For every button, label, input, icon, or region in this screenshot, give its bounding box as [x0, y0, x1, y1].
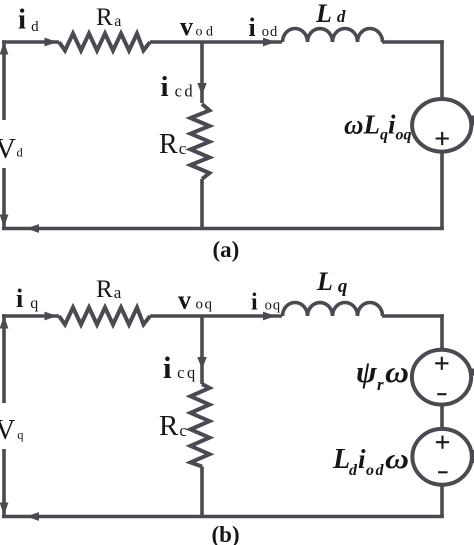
wire right vertical lower (a) — [440, 151, 444, 231]
inductor Ld — [283, 29, 383, 43]
svg-text:Ld: Ld — [315, 0, 346, 28]
svg-text:icd: icd — [161, 71, 196, 103]
svg-text:ω: ω — [385, 444, 409, 475]
wire Rc to bottom (a) — [200, 179, 204, 229]
voltage arrow V_d bottom (down) — [0, 215, 8, 228]
current arrow bottom return (a) — [26, 224, 39, 233]
svg-text:L: L — [332, 444, 350, 475]
wire top-left horizontal (b) — [2, 314, 59, 318]
polarity + of source ωLq·ioq (a) — [436, 132, 449, 145]
wire left vertical upper (b) — [2, 314, 6, 403]
wire right vertical lower (b) — [440, 484, 444, 519]
current arrow i_oq — [263, 312, 276, 321]
svg-text:Vd: Vd — [0, 133, 23, 165]
voltage source ψr·ω circle (b) — [412, 350, 471, 405]
wire resistor Ra to node v_od (a) — [150, 40, 282, 44]
current arrow i_cd — [197, 83, 207, 95]
current arrow i_od — [263, 38, 276, 47]
svg-text:Lq: Lq — [316, 267, 348, 297]
polarity − of source Ld·iod·ω (b) — [438, 471, 448, 473]
svg-text:id: id — [18, 4, 39, 36]
resistor Rc (b) — [191, 384, 210, 467]
stray mark at right edge near source ωLq·ioq — [471, 116, 474, 126]
svg-text:(b): (b) — [212, 522, 240, 545]
svg-text:Rc: Rc — [159, 129, 187, 160]
svg-text:Rc: Rc — [159, 410, 187, 442]
resistor Ra (b) — [59, 308, 150, 325]
svg-text:(a): (a) — [213, 237, 240, 262]
current arrow i_q — [45, 312, 58, 321]
svg-text:iod: iod — [249, 13, 279, 42]
wire left vertical lower (a) — [2, 168, 6, 230]
svg-text:ωLqioq: ωLqioq — [344, 110, 412, 144]
svg-text:i: i — [358, 444, 366, 474]
wire bottom return (b) — [2, 515, 444, 519]
stray mark at right edge near source Ld·iod·ω — [471, 450, 474, 463]
svg-text:icq: icq — [163, 350, 198, 385]
wire between source ψrω and source Ld·iod·ω (b) — [440, 404, 444, 431]
wire top-left horizontal (a) — [2, 40, 59, 44]
wire resistor Ra to node v_oq (b) — [150, 314, 282, 318]
wire left vertical upper (a) — [2, 40, 6, 120]
svg-text:d: d — [349, 462, 358, 479]
voltage arrow V_q top (up) — [0, 316, 8, 329]
wire right vertical upper (b) — [440, 314, 444, 351]
voltage arrow V_q bottom (down) — [0, 503, 8, 516]
polarity − of source ψrω (b) — [437, 393, 446, 395]
wire inductor Lq to right corner (b) — [382, 314, 444, 318]
current arrow bottom return (b) — [26, 512, 39, 521]
current arrow i_cq — [197, 357, 207, 369]
voltage arrow V_d top (up) — [0, 42, 8, 55]
svg-text:Vq: Vq — [0, 415, 24, 446]
svg-text:ψ: ψ — [356, 354, 377, 389]
wire right vertical upper (a) — [440, 40, 444, 100]
voltage source ωLq·ioq circle (a) — [412, 99, 471, 152]
wire Rc to bottom (b) — [200, 467, 204, 517]
svg-text:ω: ω — [385, 354, 409, 389]
polarity + of source Ld·iod·ω (b) — [436, 436, 449, 449]
stray mark at right edge near source ψrω — [471, 369, 474, 376]
wire bottom return (a) — [2, 227, 444, 231]
svg-text:Ra: Ra — [96, 276, 122, 303]
svg-text:r: r — [377, 375, 384, 394]
resistor Rc (a) — [191, 104, 210, 179]
svg-text:voq: voq — [178, 286, 214, 315]
svg-text:vod: vod — [180, 12, 217, 41]
resistor Ra (a) — [59, 34, 150, 51]
svg-text:ioq: ioq — [251, 290, 281, 316]
wire node v_od drop (a) — [200, 42, 204, 103]
voltage source Ld·iod·ω circle (b) — [412, 429, 471, 485]
wire left vertical lower (b) — [2, 449, 6, 518]
svg-text:od: od — [366, 462, 385, 479]
current arrow i_d — [45, 38, 58, 47]
inductor Lq — [283, 303, 383, 317]
polarity + of source ψrω (b) — [435, 357, 448, 370]
wire inductor Ld to right corner (a) — [382, 40, 444, 44]
svg-text:Ra: Ra — [96, 4, 121, 31]
wire node v_oq drop (b) — [200, 316, 204, 384]
svg-text:iq: iq — [16, 284, 38, 313]
